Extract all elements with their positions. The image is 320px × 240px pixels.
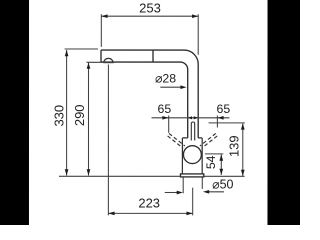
arrow 290 top xyxy=(87,63,91,69)
countertop line xyxy=(59,175,245,177)
dim 54 line xyxy=(220,155,222,175)
arrow 65 right inner xyxy=(194,116,198,119)
arrow 65 right outer xyxy=(217,116,223,120)
arrow dia28 xyxy=(180,85,186,89)
svg-text:54: 54 xyxy=(204,155,218,169)
svg-text:330: 330 xyxy=(51,105,66,127)
body collar xyxy=(182,138,202,174)
arrow 54 top xyxy=(219,155,223,161)
arrow 330 top xyxy=(65,50,69,56)
arrow 139 bottom xyxy=(241,170,245,176)
arrow 54 bottom xyxy=(219,169,223,175)
arrow dia50 right xyxy=(203,190,209,194)
dim 65 left extension xyxy=(168,116,170,133)
svg-text:⌀50: ⌀50 xyxy=(212,178,233,192)
dia50 right leader xyxy=(207,191,224,193)
dim 65 right extension xyxy=(216,116,218,128)
svg-text:65: 65 xyxy=(158,102,172,116)
arrow dia50 left xyxy=(177,191,183,195)
dim 290 extension xyxy=(87,61,113,63)
dim 253 line xyxy=(101,15,198,17)
svg-text:139: 139 xyxy=(226,135,241,157)
svg-text:65: 65 xyxy=(217,102,231,116)
dia50 left extension xyxy=(182,177,184,193)
lever handle xyxy=(191,122,194,141)
right black bar xyxy=(267,0,300,225)
dim 139 line xyxy=(242,123,244,175)
dim 65 line xyxy=(151,117,229,119)
left black bar xyxy=(0,0,29,225)
ball joint xyxy=(183,146,201,164)
dia50 left leader xyxy=(165,192,179,194)
arrow 253 right xyxy=(192,14,198,18)
dim 330 line xyxy=(66,50,68,176)
arrow 253 left xyxy=(101,14,107,18)
arrow 223 right xyxy=(186,212,192,216)
svg-text:223: 223 xyxy=(138,195,160,210)
dia28 leader arrow line xyxy=(160,86,183,88)
arrow 330 bottom xyxy=(65,169,69,175)
base flange xyxy=(180,174,203,177)
dim 253 extension lines xyxy=(101,14,198,55)
svg-text:⌀28: ⌀28 xyxy=(155,71,176,85)
arrow 65 left outer xyxy=(162,116,168,120)
arrow 290 bottom xyxy=(87,169,91,175)
dim 139 top extension xyxy=(209,122,245,124)
svg-text:290: 290 xyxy=(72,104,87,126)
spout outline xyxy=(101,50,198,138)
arrow 139 top xyxy=(241,123,245,129)
spout seam joint xyxy=(152,50,154,62)
dim 330 extension xyxy=(65,48,98,50)
dashed lever swung left xyxy=(168,133,218,148)
aerator xyxy=(104,58,114,62)
arrow 223 left xyxy=(108,212,114,216)
dashed lever swung right xyxy=(200,133,216,146)
dim 223 right extension xyxy=(192,188,194,216)
arrow 65 left inner xyxy=(188,116,192,119)
dim 223 left extension xyxy=(107,64,109,215)
aerator base xyxy=(103,61,113,63)
dia50 right extension xyxy=(201,177,203,189)
dim 223 line xyxy=(108,212,192,214)
dim 54 top extension xyxy=(205,153,223,155)
svg-text:253: 253 xyxy=(139,1,161,16)
dim 290 line xyxy=(87,63,89,176)
